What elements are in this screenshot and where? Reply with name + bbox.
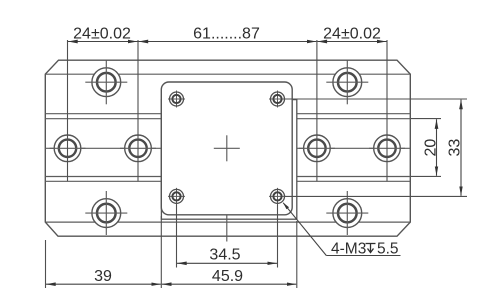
svg-text:33: 33 (447, 139, 464, 157)
extension line 34.5 left (176, 205, 178, 268)
extension line 20 top (411, 118, 441, 120)
carriage block (161, 100, 296, 220)
body top bevel line (45, 73, 410, 75)
dimension 20 (436, 119, 438, 176)
extension line 33 top (284, 98, 467, 100)
dimension 24 right (317, 41, 386, 43)
mid hole left-inner (120, 135, 156, 162)
extension line col C (316, 40, 318, 181)
dimension 24 left (68, 41, 138, 43)
svg-text:34.5: 34.5 (209, 246, 240, 263)
extension line 39 left (45, 240, 47, 288)
center line below table (226, 215, 228, 242)
dimension 39 (46, 283, 161, 285)
extension line col D (386, 40, 388, 181)
extension line 33 bottom (284, 195, 467, 197)
mid hole far-right (369, 135, 405, 162)
dimension 45.9 (162, 283, 296, 285)
svg-text:24±0.02: 24±0.02 (73, 26, 131, 43)
extension line 45.9 right (296, 221, 298, 288)
svg-text:24±0.02: 24±0.02 (323, 26, 381, 43)
leader 4-M3 (283, 203, 401, 256)
counterbore hole top-right (326, 61, 368, 105)
mid row centerline right (297, 147, 411, 149)
counterbore hole top-left (85, 61, 127, 105)
svg-text:61.......87: 61.......87 (193, 26, 260, 43)
counterbore hole bottom-left (85, 191, 127, 235)
table center mark (214, 135, 240, 161)
svg-text:5.5: 5.5 (377, 241, 399, 258)
extension line col B (137, 40, 139, 181)
table hole bottom-left M3 (168, 188, 185, 205)
mid hole right-inner (299, 135, 335, 162)
table plate (161, 82, 292, 215)
rail double lines lower (45, 177, 410, 182)
svg-text:20: 20 (423, 139, 440, 157)
svg-text:4-M3: 4-M3 (331, 241, 366, 258)
extension line shared 39/45.9 (160, 216, 162, 288)
extension line col A (67, 40, 69, 181)
label 4-M3 depth 5.5 (331, 241, 399, 258)
table hole top-right M3 (269, 91, 286, 108)
rail double lines upper (45, 114, 410, 119)
dimension 33 (460, 100, 462, 196)
extension line 20 bottom (411, 175, 441, 177)
mid hole far-left (50, 135, 86, 162)
body outline (45, 60, 410, 236)
counterbore hole bottom-right (326, 191, 368, 235)
dimension 61-87 (139, 41, 317, 43)
mid row centerline left (45, 147, 161, 149)
table hole bottom-right M3 (269, 188, 286, 205)
svg-text:45.9: 45.9 (212, 268, 243, 285)
dimension 34.5 (177, 262, 277, 264)
extension line 34.5 right (277, 205, 279, 268)
body bottom bevel line (45, 221, 410, 223)
table hole top-left M3 (168, 91, 185, 108)
svg-text:39: 39 (94, 268, 112, 285)
